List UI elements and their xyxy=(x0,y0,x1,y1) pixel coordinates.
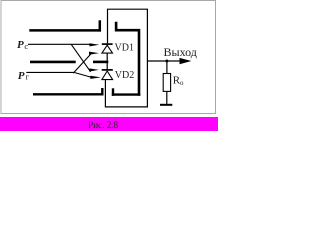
arrow output xyxy=(180,58,192,64)
diode VD2 triangle xyxy=(102,71,113,80)
wire: between diodes xyxy=(106,45,108,70)
arrow to VD1 from Pc xyxy=(89,43,99,46)
wire diagonal Pg to VD1 xyxy=(73,54,90,73)
svg-text:VD2: VD2 xyxy=(115,70,134,81)
thick step conductor (inner right) xyxy=(115,22,141,96)
strip line A right up-tick xyxy=(99,20,102,31)
caption bar xyxy=(0,117,218,131)
svg-text:P: P xyxy=(18,70,25,82)
svg-text:г: г xyxy=(26,72,30,82)
svg-text:P: P xyxy=(17,39,24,51)
strip line D (bottom right thick) xyxy=(112,93,141,95)
arrow diagonal to VD1 xyxy=(89,52,99,55)
diode VD1 cathode bar xyxy=(102,43,113,45)
diode VD2 cathode bar xyxy=(102,69,113,71)
arrow to VD2 from Pg xyxy=(90,76,101,79)
wire diagonal Pc to VD2 xyxy=(71,44,90,72)
ground bar xyxy=(160,104,172,106)
resistor Ro xyxy=(163,74,170,92)
strip line B (middle thick, left segment) xyxy=(30,61,76,64)
strip line C right up-tick xyxy=(101,88,103,96)
arrow diagonal to VD2 xyxy=(89,68,99,71)
frame border xyxy=(1,1,216,114)
svg-text:Выход: Выход xyxy=(164,45,197,59)
svg-text:о: о xyxy=(180,79,184,87)
wire resistor top lead xyxy=(166,61,168,74)
strip line D left up-tick xyxy=(112,88,114,96)
strip line A (top left thick) xyxy=(29,29,101,32)
strip line C (bottom left thick) xyxy=(33,93,104,95)
wire output xyxy=(147,60,180,62)
wire Pc input xyxy=(28,43,91,45)
wire Pg input xyxy=(26,72,91,77)
svg-text:с: с xyxy=(24,41,28,51)
node junction dot xyxy=(165,60,168,63)
diode VD1 triangle xyxy=(102,45,113,53)
strip line B right segment to diode chain xyxy=(93,61,108,64)
svg-text:VD1: VD1 xyxy=(115,43,134,54)
caption text xyxy=(0,121,222,131)
wire: outer thin loop (left vertical, top, right vertical, bottom) xyxy=(105,9,147,107)
wire resistor bottom lead xyxy=(166,91,168,104)
